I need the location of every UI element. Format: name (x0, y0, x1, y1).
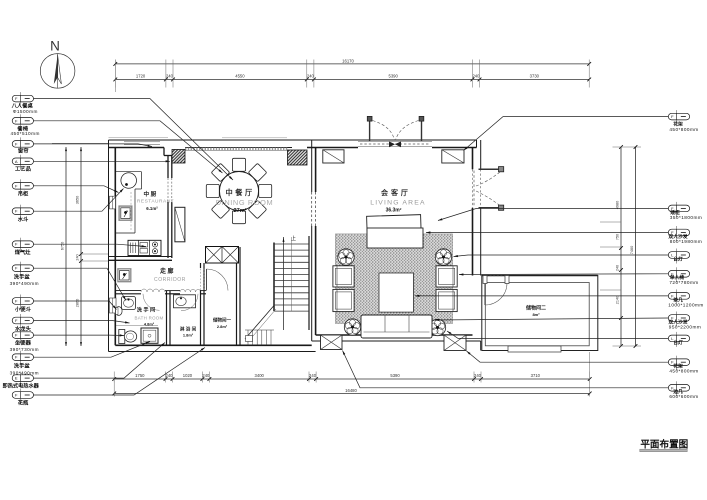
left leader 即热式电热水器 (34, 343, 166, 379)
outer left wall (109, 140, 116, 352)
right door upper leaf (479, 167, 504, 172)
left callout 即热式电热水器 (3, 372, 40, 390)
storage1 door leaf and arc (207, 269, 229, 291)
right dimension column overall (630, 145, 637, 348)
svg-text:水斗: 水斗 (18, 215, 29, 223)
svg-text:36.3m²: 36.3m² (386, 208, 402, 214)
right dimension column segments (600, 145, 641, 348)
svg-text:N: N (50, 39, 60, 54)
right leader 双人沙发 to tv cabinet (426, 232, 668, 234)
svg-text:LIVING AREA: LIVING AREA (370, 200, 426, 207)
left dimension column segments (52, 143, 109, 346)
bathroom door arc (143, 294, 160, 311)
left callout 花瓶 (12, 389, 33, 407)
left leader 窗帘 to dining window (34, 144, 153, 147)
svg-text:4.8m²: 4.8m² (144, 321, 155, 326)
shower room door arc (181, 294, 198, 311)
plant box corner bottom-right (444, 335, 466, 351)
armchair left 1 (333, 266, 354, 287)
svg-text:中 厨: 中 厨 (144, 190, 157, 198)
svg-text:4980: 4980 (616, 201, 620, 209)
svg-text:240: 240 (166, 373, 174, 378)
svg-text:洗手盆: 洗手盆 (14, 362, 31, 370)
svg-text:450*800mm: 450*800mm (669, 369, 698, 374)
svg-text:台灯: 台灯 (673, 255, 683, 262)
svg-text:4550: 4550 (235, 74, 245, 79)
svg-text:240: 240 (166, 74, 174, 79)
svg-text:3710: 3710 (531, 373, 541, 378)
svg-text:6.1m²: 6.1m² (146, 206, 158, 211)
svg-text:240: 240 (616, 265, 620, 271)
left leader 水斗 to kitchen sink (34, 189, 124, 212)
left callout 洗手盆 (10, 262, 39, 287)
svg-text:1750: 1750 (135, 373, 145, 378)
dining chairs (206, 158, 271, 223)
staircase lower flight (245, 306, 276, 346)
svg-text:390*490mm: 390*490mm (10, 281, 39, 286)
corridor bottom wall / bathroom top (115, 291, 206, 294)
svg-text:27m²: 27m² (233, 207, 246, 214)
svg-text:750: 750 (616, 234, 620, 240)
flower stand top right (435, 249, 451, 265)
left callout 煤气灶 (12, 238, 33, 256)
dining table (220, 172, 259, 211)
svg-text:台灯: 台灯 (673, 339, 683, 346)
bath-shower partition wall (167, 291, 171, 346)
right door opening band (473, 171, 475, 208)
right leader 台灯 to flower stand (454, 255, 669, 257)
svg-text:储物间二: 储物间二 (526, 305, 546, 312)
svg-text:3400: 3400 (255, 373, 265, 378)
living right wall (473, 140, 481, 276)
tv cabinet / two-seat sofa top (367, 228, 423, 248)
kitchen stove appliance row (128, 240, 161, 255)
left callout 小便斗 (12, 295, 33, 314)
bathroom toilet (119, 330, 137, 344)
left leader 餐椅 to dining chair (34, 121, 223, 173)
svg-text:3650: 3650 (76, 196, 80, 204)
svg-text:1000*1200mm: 1000*1200mm (668, 302, 703, 307)
bathroom fixture alignment line (116, 325, 158, 327)
bathroom washbasin (122, 297, 136, 310)
storage2 top wall segment (482, 275, 598, 277)
tv panel tilted (367, 215, 421, 231)
kitchen wall cabinet with symbol (119, 206, 132, 220)
shower room basin counter (174, 295, 196, 308)
right callout 单人椅 (668, 267, 698, 285)
shower door threshold scallops (180, 289, 201, 292)
svg-text:8m²: 8m² (532, 312, 540, 317)
svg-text:窗帘: 窗帘 (18, 147, 29, 155)
svg-text:走廊: 走廊 (160, 267, 175, 275)
svg-text:450*510mm: 450*510mm (11, 131, 40, 136)
top dimension row segments (113, 60, 591, 93)
storage2 outer walls (482, 276, 598, 351)
svg-text:小便斗: 小便斗 (14, 305, 32, 313)
svg-text:洗手盆: 洗手盆 (14, 272, 31, 280)
kitchen right wall (168, 156, 172, 259)
left leader 洗手盆 to bathroom basin (34, 268, 127, 300)
dining cabinet west (175, 207, 185, 242)
right callout 花架 (668, 110, 698, 132)
svg-text:淋 浴 间: 淋 浴 间 (180, 326, 197, 333)
svg-text:720*780mm: 720*780mm (669, 280, 698, 285)
svg-text:350*1800mm: 350*1800mm (670, 215, 702, 220)
armchair left 2 (333, 289, 354, 311)
left leader 煤气灶 to stove (34, 244, 147, 246)
svg-text:即热式电热水器: 即热式电热水器 (3, 382, 40, 390)
staircase upper flight (274, 236, 309, 330)
svg-text:A: A (15, 159, 18, 164)
left callout 工艺品 (12, 155, 33, 173)
svg-text:平面布置图: 平面布置图 (640, 439, 688, 451)
entrance threshold band (358, 142, 432, 147)
left leader 吊柜 to kitchen counter (34, 186, 119, 193)
svg-text:390*730mm: 390*730mm (10, 347, 39, 352)
svg-text:坐便器: 坐便器 (15, 338, 32, 346)
column right of dining window (288, 150, 308, 165)
bathroom urinal (115, 307, 122, 316)
left callout 水龙头 (12, 314, 33, 333)
left leader 小便斗 to urinal (34, 301, 117, 310)
coffee table (379, 273, 413, 312)
right callout 花架 (668, 356, 698, 374)
living left wall (312, 140, 316, 341)
left leader 坐便器 to toilet (34, 334, 125, 336)
right leader 单人椅 to armchair (459, 273, 668, 276)
svg-text:BATH ROOM: BATH ROOM (135, 316, 164, 321)
top dimension row overall 16170 (113, 58, 591, 65)
storage1 door opening dashed (201, 269, 205, 291)
right callout 双人沙发 (668, 312, 701, 330)
right leader 花架 to corner box (464, 117, 669, 151)
bathroom door threshold scallops (141, 289, 165, 292)
svg-text:RESTAURANT: RESTAURANT (137, 198, 174, 204)
left leader 工艺品 (34, 160, 171, 162)
outer top wall (109, 138, 477, 156)
right callout 矮柜 (668, 202, 702, 220)
svg-text:240: 240 (307, 74, 315, 79)
entrance door bowtie symbol (389, 141, 395, 147)
right door swing arcs (476, 172, 500, 206)
storage1 wardrobe X-box (206, 247, 239, 264)
svg-text:E: E (15, 376, 18, 381)
left callout 洗手盆 (10, 351, 39, 376)
three seat sofa bottom (361, 315, 432, 338)
svg-text:16480: 16480 (345, 388, 357, 393)
left callout 坐便器 (10, 329, 39, 353)
plant box corner top-left (323, 150, 344, 163)
svg-text:工艺品: 工艺品 (15, 165, 32, 173)
svg-text:花瓶: 花瓶 (18, 399, 29, 407)
flower stand top left (338, 249, 354, 265)
entrance door right leaf (419, 116, 424, 141)
svg-text:5390: 5390 (390, 373, 400, 378)
armchair right 1 (436, 266, 457, 287)
svg-text:煤气灶: 煤气灶 (15, 248, 32, 256)
svg-text:中 餐 厅: 中 餐 厅 (225, 188, 252, 197)
svg-text:DINING ROOM: DINING ROOM (216, 198, 274, 207)
svg-text:2860: 2860 (76, 299, 80, 307)
storage2 door (483, 276, 509, 306)
right callout 双人沙发 (668, 226, 702, 244)
svg-text:240: 240 (76, 254, 80, 260)
column left of dining window (172, 150, 185, 164)
svg-text:240: 240 (309, 373, 317, 378)
left leader 洗手盆 to shower basin (34, 342, 151, 358)
plant box corner top-right (442, 150, 464, 163)
living room carpet (335, 234, 452, 324)
kitchen left wall window (110, 196, 116, 209)
shower-storage partition wall (201, 263, 205, 345)
svg-text:16170: 16170 (342, 58, 354, 63)
left callout 八人餐桌 (11, 92, 38, 114)
svg-text:240: 240 (202, 373, 210, 378)
left callout 吊柜 (12, 179, 33, 197)
kitchen bottom wall / corridor top (109, 257, 173, 261)
svg-text:240: 240 (474, 373, 482, 378)
corridor electrical box (118, 269, 131, 282)
svg-text:吊柜: 吊柜 (18, 190, 29, 198)
svg-text:3730: 3730 (530, 74, 540, 79)
svg-text:1720: 1720 (136, 74, 146, 79)
staircase up arrow (283, 235, 297, 242)
bottom outer wall left section (109, 345, 316, 351)
svg-text:240: 240 (472, 74, 480, 79)
right callout 边几 (668, 381, 698, 399)
svg-text:会 客 厅: 会 客 厅 (381, 188, 408, 197)
dining window band (185, 148, 288, 151)
svg-text:800*1980mm: 800*1980mm (670, 239, 702, 244)
kitchen sink (121, 173, 137, 189)
bottom dimension row overall 16480 (112, 352, 591, 397)
svg-text:600*600mm: 600*600mm (669, 394, 698, 399)
left callout 餐椅 (11, 114, 40, 136)
svg-text:储物间一: 储物间一 (213, 317, 231, 324)
svg-text:洗 手 间: 洗 手 间 (137, 306, 155, 314)
left leader 八人餐桌 to dining table (34, 99, 234, 180)
north arrow (40, 39, 75, 89)
svg-text:6750: 6750 (61, 242, 65, 250)
right callout 茶几 (668, 289, 703, 307)
left callout 水斗 (12, 205, 33, 223)
svg-text:5390: 5390 (388, 74, 398, 79)
armchair right 2 (436, 289, 457, 311)
svg-text:CORRIDOR: CORRIDOR (154, 277, 186, 283)
storage2 bottom recess (508, 346, 561, 352)
right callout 台灯 (668, 249, 689, 264)
right door lower leaf (479, 205, 504, 210)
left leader 水龙头 (34, 321, 130, 324)
living bottom wall (312, 335, 481, 351)
title 平面布置图 (640, 439, 688, 452)
svg-text:1020: 1020 (183, 373, 193, 378)
svg-text:450*800mm: 450*800mm (669, 127, 698, 132)
left leader 花瓶 (34, 348, 206, 396)
svg-text:2.8m²: 2.8m² (217, 324, 228, 329)
storage1 right wall (237, 247, 241, 345)
svg-text:2140: 2140 (616, 296, 620, 304)
entrance door swing arcs (373, 121, 419, 141)
right leader 双人沙发 to sofa (435, 318, 669, 320)
bathroom shower tray (141, 328, 158, 343)
left callout 窗帘 (12, 137, 33, 154)
right leader 矮柜 to tv panel (438, 208, 668, 220)
bottom dimension row segments (112, 372, 591, 383)
bathroom left wall window (110, 298, 117, 313)
left dimension column overall 6750 (61, 147, 68, 346)
right leader 茶几 to coffee table (415, 295, 668, 297)
svg-text:水龙头: 水龙头 (15, 325, 32, 333)
right leader 花架 to corner box bottom (467, 351, 669, 362)
plant box corner bottom-left (321, 335, 343, 350)
right leader 边几 to corner box (343, 351, 669, 388)
flower stand bottom right (429, 319, 445, 335)
flower stand bottom left (344, 319, 360, 335)
right leader 台灯 to flower stand bottom (447, 331, 668, 338)
kitchen top window (124, 142, 160, 145)
entrance door left leaf (367, 116, 372, 141)
right callout 台灯 (668, 332, 689, 347)
svg-text:950*2200mm: 950*2200mm (669, 324, 701, 329)
svg-text:1.8m²: 1.8m² (183, 333, 194, 338)
kitchen counter (115, 172, 141, 233)
svg-text:上: 上 (291, 235, 296, 242)
svg-text:7460: 7460 (630, 246, 634, 254)
svg-text:Φ1500mm: Φ1500mm (13, 109, 38, 114)
